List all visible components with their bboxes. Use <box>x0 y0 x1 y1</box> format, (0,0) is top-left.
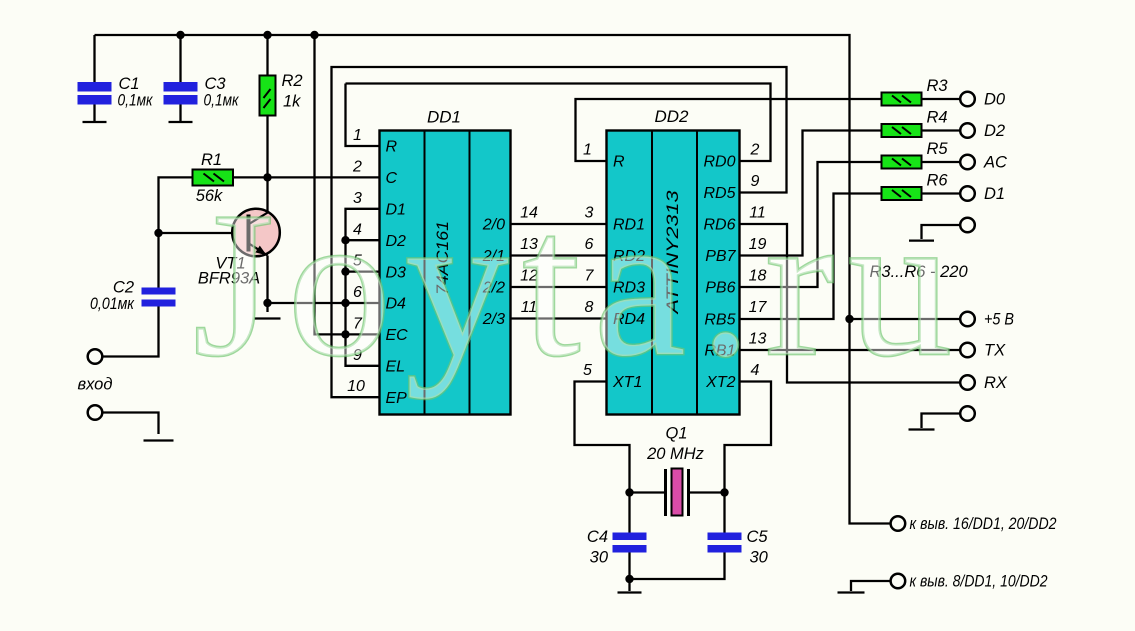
ground at lower gnd terminal <box>909 414 961 430</box>
terminal gnd lower <box>960 406 975 421</box>
svg-text:0,01мк: 0,01мк <box>90 295 135 313</box>
wire R4 to D2 terminal <box>922 129 961 131</box>
ground at upper gnd terminal <box>909 225 960 241</box>
capacitor C2 <box>142 288 176 307</box>
terminal k vyv 16/DD1 20/DD2 <box>891 516 906 531</box>
terminal gnd upper <box>960 218 975 233</box>
chip DD2 ATTINY2313 body <box>607 131 740 415</box>
wire RB5 to R6 <box>740 194 882 320</box>
wire input terminal 2 to ground <box>102 413 159 435</box>
wire R6 to D1 terminal <box>922 192 961 194</box>
wire DD1 pin R bend from net y83 <box>346 84 380 147</box>
svg-text:AC: AC <box>983 154 1007 172</box>
terminal D2 <box>960 123 975 138</box>
wire crystal left lead <box>630 491 665 493</box>
ground C3 <box>169 121 193 123</box>
svg-text:RX: RX <box>984 374 1008 392</box>
svg-text:2: 2 <box>750 142 760 159</box>
crystal Q1 20 MHz <box>666 469 689 517</box>
svg-text:D2: D2 <box>984 122 1005 140</box>
wire collector of VT1 <box>266 177 268 211</box>
svg-text:D1: D1 <box>984 185 1005 203</box>
svg-text:C1: C1 <box>119 75 140 93</box>
svg-text:RD0: RD0 <box>703 154 735 171</box>
svg-text:R1: R1 <box>201 151 222 169</box>
wire R2 top lead <box>266 35 268 76</box>
wire EC to +5V branch <box>315 35 380 334</box>
wire C5 leads <box>630 493 725 580</box>
wire +5V rail to +5V terminal <box>850 318 961 320</box>
ground emitter VT1 <box>255 317 281 319</box>
node bracket-D2 junction <box>341 236 349 244</box>
wire DD1 pin1-R to DD2 pin2-RD0 net <box>346 84 771 162</box>
svg-text:C4: C4 <box>587 528 608 546</box>
capacitor C5 <box>708 533 742 553</box>
terminal D0 <box>960 92 975 107</box>
svg-text:C5: C5 <box>747 528 769 546</box>
wire R5 to AC terminal <box>922 161 961 163</box>
svg-text:1: 1 <box>353 127 362 144</box>
node bracket-D3 junction <box>341 267 349 275</box>
wire R2 bottom lead to node <box>266 116 268 178</box>
svg-text:20 MHz: 20 MHz <box>646 445 705 463</box>
wire DD1 D3 stub <box>346 270 380 272</box>
node bracket-EC junction <box>341 330 349 338</box>
wire +5V top rail <box>95 35 891 524</box>
wire EP to RD5 net <box>332 67 787 397</box>
capacitor C4 <box>613 533 647 553</box>
svg-text:R: R <box>613 154 625 171</box>
resistor R2 <box>260 76 276 116</box>
ground input 2 <box>144 439 174 441</box>
wire emitter to DD1 pin D4 <box>268 302 380 304</box>
wire R1 right lead / DD1 pin C net <box>233 176 380 178</box>
node bracket-D4 junction <box>341 299 349 307</box>
svg-text:TX: TX <box>984 342 1006 360</box>
svg-text:R3: R3 <box>926 77 948 95</box>
wire C2 top lead <box>157 233 159 288</box>
wire DD1 2/2 to DD2 RD3 <box>511 286 607 288</box>
svg-text:DD1: DD1 <box>427 108 461 127</box>
wire DD1 D1-EL bracket <box>346 209 380 366</box>
svg-text:Q1: Q1 <box>665 425 687 443</box>
terminal input 2 <box>88 405 103 420</box>
resistor R1 <box>193 170 234 186</box>
wire PB7 to R4 <box>740 131 882 256</box>
node crystal left junction <box>625 488 633 496</box>
svg-text:1k: 1k <box>283 93 301 111</box>
node base junction <box>154 229 162 237</box>
resistor R5 <box>882 156 922 169</box>
node rail-C3 junction <box>176 31 184 39</box>
svg-text:R: R <box>386 139 398 156</box>
wire C1 leads <box>93 35 95 122</box>
resistor R6 <box>882 187 922 200</box>
wire PB6 to R5 <box>740 162 882 287</box>
terminal RX <box>960 375 975 390</box>
transistor VT1 BFR93A <box>232 209 280 257</box>
wire DD2 pin1-R to R3 net <box>576 99 882 161</box>
terminal k vyv 8/DD1 10/DD2 <box>891 574 906 589</box>
chip DD1 74AC161 body <box>380 131 511 415</box>
ground C1 <box>83 121 107 123</box>
svg-text:R2: R2 <box>282 72 303 90</box>
node crystal right junction <box>720 488 728 496</box>
wire DD1 2/0 to DD2 RD1 <box>511 223 607 225</box>
wire base of VT1 <box>159 232 248 234</box>
svg-text:30: 30 <box>750 549 769 567</box>
wire R3 to D0 terminal <box>922 98 961 100</box>
svg-text:Joyta.ru: Joyta.ru <box>193 169 965 399</box>
wire C4 bottom lead <box>628 553 630 592</box>
wire DD1 D2 stub <box>346 239 380 241</box>
svg-text:C3: C3 <box>205 75 227 93</box>
wire RD6 to RX terminal <box>740 224 961 383</box>
terminal +5V <box>960 312 975 327</box>
node rail-R2 junction <box>263 31 271 39</box>
svg-text:1: 1 <box>583 142 592 159</box>
svg-text:R4: R4 <box>926 109 947 127</box>
svg-text:R5: R5 <box>926 140 948 158</box>
wire XT2 to crystal <box>725 382 772 493</box>
wire and ground k vyv 8 terminal <box>838 581 892 593</box>
svg-text:0,1мк: 0,1мк <box>204 92 240 110</box>
capacitor C3 <box>164 82 198 105</box>
ground crystal <box>618 591 642 593</box>
svg-text:DD2: DD2 <box>654 107 689 126</box>
svg-text:к выв. 16/DD1, 20/DD2: к выв. 16/DD1, 20/DD2 <box>910 515 1057 533</box>
wire C2 bottom lead to input terminal <box>102 307 159 357</box>
terminal TX <box>960 343 975 358</box>
wire DD1 2/1 to DD2 RD2 <box>511 254 607 256</box>
wire DD1 2/3 to DD2 RD4 <box>511 317 607 319</box>
svg-text:C2: C2 <box>113 279 134 297</box>
svg-text:вход: вход <box>78 376 113 394</box>
svg-text:30: 30 <box>590 549 609 567</box>
wire crystal right lead <box>690 491 725 493</box>
wire C3 leads <box>179 35 181 122</box>
wire R1 left lead <box>159 177 193 233</box>
capacitor C1 <box>78 82 112 105</box>
wire XT1 to crystal <box>575 382 630 533</box>
svg-text:D0: D0 <box>984 91 1006 109</box>
svg-text:+5 В: +5 В <box>984 311 1014 329</box>
terminal AC <box>960 155 975 170</box>
node +5V junction <box>845 315 853 323</box>
svg-text:0,1мк: 0,1мк <box>118 92 154 110</box>
wire emitter of VT1 down <box>266 256 268 313</box>
node C4-C5 ground junction <box>625 575 633 583</box>
node R1-R2-collector junction <box>263 173 271 181</box>
resistor R3 <box>882 93 922 106</box>
terminal input 1 <box>88 349 103 364</box>
svg-text:к выв. 8/DD1, 10/DD2: к выв. 8/DD1, 10/DD2 <box>910 573 1048 591</box>
terminal D1 <box>960 186 975 201</box>
node rail-EC junction <box>310 31 318 39</box>
resistor R4 <box>882 124 922 137</box>
node emitter-D4 junction <box>263 299 271 307</box>
wire RB1 to TX terminal <box>740 349 961 351</box>
